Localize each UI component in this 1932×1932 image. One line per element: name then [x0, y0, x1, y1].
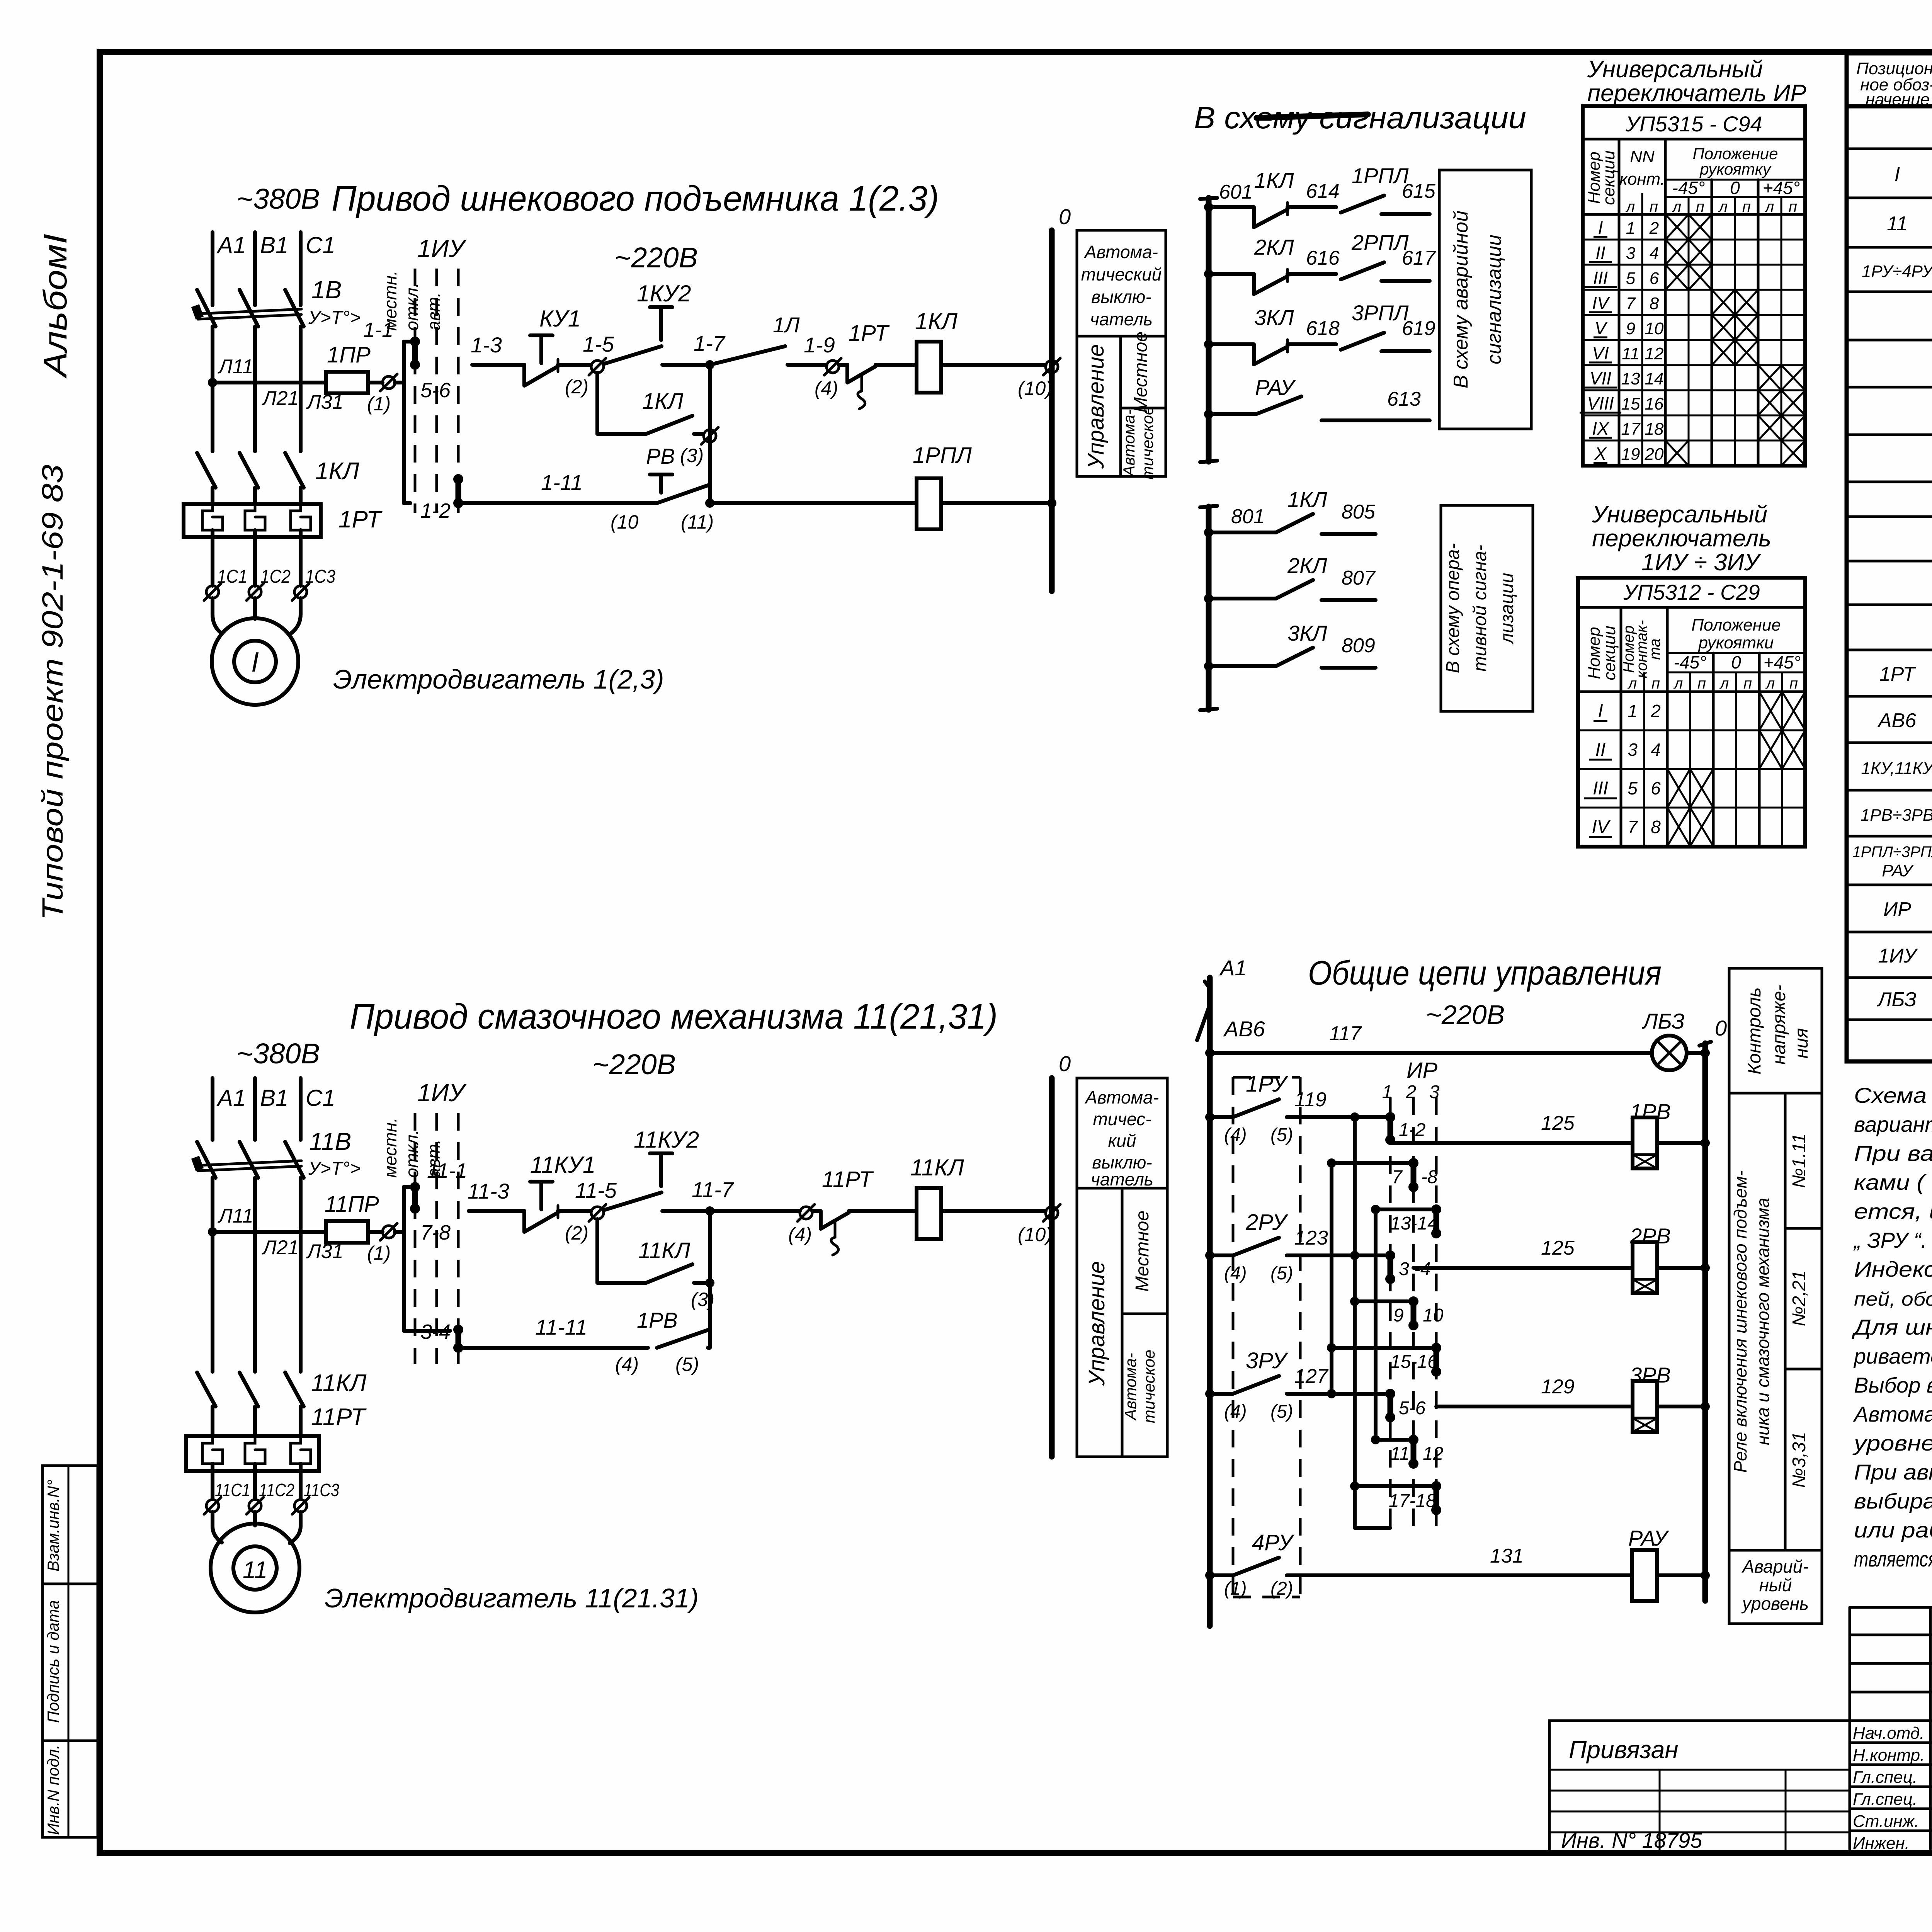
- svg-text:Л11: Л11: [218, 355, 253, 378]
- contact 1Л: [710, 313, 800, 365]
- svg-text:п: п: [1789, 675, 1798, 692]
- svg-text:Привязан: Привязан: [1569, 1736, 1679, 1764]
- svg-text:12: 12: [1423, 1444, 1443, 1464]
- phase wires below breaker (circuit 2): [213, 1178, 301, 1372]
- box Контроль напряжения: [1729, 968, 1822, 1093]
- svg-text:секции: секции: [1599, 150, 1618, 205]
- label Л31: [306, 391, 344, 413]
- stamp label Инв.N подл.: [44, 1745, 62, 1835]
- svg-text:Привод шнекового подъемника: Привод шнекового подъемника 1(2.3): [332, 179, 939, 218]
- svg-text:Управление: Управление: [1083, 344, 1109, 469]
- heading Универсальный переключатель ИР: [1587, 56, 1806, 107]
- svg-text:В схему опера-: В схему опера-: [1443, 543, 1463, 673]
- svg-text:Инв.N подл.: Инв.N подл.: [44, 1745, 62, 1835]
- svg-text:1: 1: [1626, 219, 1635, 238]
- label 11-1: [427, 1159, 467, 1182]
- svg-text:1В: 1В: [311, 276, 342, 304]
- svg-text:(11): (11): [681, 511, 714, 533]
- net ~380В (circuit 2): [236, 1037, 320, 1070]
- svg-text:IX: IX: [1592, 418, 1610, 439]
- contact row 2КЛ wire 807: [1204, 553, 1376, 603]
- svg-text:п: п: [1696, 198, 1704, 215]
- contact row 1КЛ/1РПЛ wires 601-614-615: [1204, 163, 1436, 227]
- svg-text:7-8: 7-8: [420, 1221, 451, 1244]
- table row 1РВ-3РВ РВ4-4: [1861, 801, 1932, 825]
- label откл. c2: [402, 1130, 422, 1178]
- svg-text:ЛБЗ: ЛБЗ: [1642, 1009, 1685, 1033]
- svg-text:ИР: ИР: [1406, 1058, 1437, 1083]
- svg-text:127: 127: [1294, 1365, 1329, 1388]
- svg-text:п: п: [1697, 675, 1706, 692]
- margin note Альбом I: [37, 234, 73, 379]
- box Реле включения шнекового подъемника и смазочного механизма: [1729, 1093, 1785, 1550]
- svg-text:10: 10: [1423, 1305, 1444, 1326]
- title Привод смазочного механизма 11(21,31): [350, 997, 998, 1036]
- svg-text:конт.: конт.: [1619, 170, 1665, 189]
- thermal relay heaters 1РТ: [184, 504, 321, 537]
- motor 11 (electric motor II): [211, 1524, 299, 1612]
- control mode box circuit 1: [1077, 230, 1166, 480]
- label 11КЛ (main contacts): [311, 1370, 367, 1396]
- svg-text:№2,21: №2,21: [1789, 1270, 1810, 1326]
- svg-text:12: 12: [1645, 344, 1664, 363]
- svg-text:0: 0: [1059, 1051, 1071, 1076]
- svg-text:1РУ: 1РУ: [1246, 1071, 1288, 1097]
- svg-text:л: л: [1626, 198, 1635, 215]
- node А1 label: [216, 232, 246, 258]
- bus 0 (common control right): [1699, 1016, 1727, 1601]
- svg-text:л: л: [1628, 675, 1637, 692]
- svg-text:3РПЛ: 3РПЛ: [1352, 301, 1409, 325]
- svg-text:РАУ: РАУ: [1628, 1526, 1669, 1550]
- terminal 1С3: [292, 566, 335, 600]
- svg-text:выбираемые избирателем режим: выбираемые избирателем режима ИР ( кажды…: [1854, 1489, 1932, 1513]
- svg-text:Автома-: Автома-: [1083, 242, 1158, 262]
- selector switch 1ИУ dashed poles: [415, 269, 458, 513]
- svg-text:уровней в приемной камере.: уровней в приемной камере. Местное с пом…: [1852, 1431, 1932, 1455]
- selector table УП5312-С29 rows: [1578, 692, 1805, 846]
- push button 11КУ1: [524, 1152, 595, 1232]
- svg-text:тическое: тическое: [1140, 1350, 1158, 1423]
- svg-text:Электродвигатель 11(21.31): Электродвигатель 11(21.31): [325, 1583, 699, 1613]
- push button КУ1: [524, 306, 581, 386]
- selector switch 1ИУ dashed poles c2: [415, 1113, 458, 1364]
- svg-text:Универсальный: Универсальный: [1587, 56, 1763, 83]
- wire 1-9: [787, 333, 835, 365]
- svg-text:КУ1: КУ1: [539, 306, 581, 332]
- svg-text:16: 16: [1645, 395, 1664, 413]
- table row ИР УП5315-С94: [1883, 898, 1932, 921]
- svg-text:(1): (1): [367, 1242, 391, 1264]
- svg-text:п: п: [1743, 675, 1752, 692]
- svg-text:(4): (4): [1224, 1125, 1247, 1145]
- svg-text:л: л: [1718, 198, 1728, 215]
- svg-text:Автома-: Автома-: [1120, 409, 1138, 477]
- relay coil 1РПЛ: [705, 443, 1056, 529]
- net ~220В (circuit 1): [614, 241, 698, 274]
- svg-text:2РВ: 2РВ: [1629, 1224, 1671, 1248]
- svg-text:Взам.инв.N°: Взам.инв.N°: [44, 1480, 62, 1571]
- svg-text:129: 129: [1541, 1376, 1575, 1398]
- svg-text:17-18: 17-18: [1389, 1491, 1436, 1511]
- svg-text:11С2: 11С2: [259, 1480, 294, 1500]
- svg-text:3КЛ: 3КЛ: [1287, 621, 1327, 645]
- svg-text:2РПЛ: 2РПЛ: [1351, 230, 1409, 255]
- svg-text:У>Т°>: У>Т°>: [308, 308, 361, 328]
- table row level relays 1РУ-4РУ: [1862, 257, 1932, 282]
- svg-text:5: 5: [1628, 778, 1638, 798]
- svg-text:X: X: [1594, 444, 1607, 464]
- svg-text:613: 613: [1387, 388, 1421, 410]
- wire to terminal (4) c2: [710, 1209, 800, 1213]
- svg-text:(5): (5): [1270, 1401, 1293, 1422]
- node С1 label c2: [306, 1085, 335, 1111]
- svg-text:+45°: +45°: [1763, 178, 1800, 198]
- svg-text:1: 1: [1628, 701, 1638, 721]
- svg-text:4: 4: [1651, 740, 1661, 760]
- ИР contact 11-12: [1390, 1435, 1443, 1469]
- svg-text:3РУ: 3РУ: [1246, 1348, 1288, 1373]
- svg-text:9: 9: [1626, 319, 1635, 338]
- label 11В: [309, 1128, 351, 1155]
- svg-text:л: л: [1765, 198, 1774, 215]
- table row АВ6 А63М: [1877, 702, 1932, 741]
- svg-text:РАУ: РАУ: [1882, 861, 1914, 880]
- svg-text:Типовой проект 902-1-69 83: Типовой проект 902-1-69 83: [36, 464, 69, 920]
- label Электродвигатель 11(21.31): [325, 1583, 699, 1613]
- terminal 11С3: [292, 1480, 339, 1514]
- svg-text:Управление: Управление: [1084, 1261, 1109, 1386]
- svg-text:авт.: авт.: [423, 1139, 444, 1178]
- svg-text:~380В: ~380В: [236, 1037, 320, 1070]
- node Л11: [208, 355, 253, 387]
- svg-text:Местное: Местное: [1132, 1211, 1153, 1292]
- level relay column dashed bracket: [1233, 1077, 1300, 1597]
- svg-text:л: л: [1673, 675, 1683, 692]
- svg-text:тическое: тическое: [1138, 406, 1156, 480]
- svg-text:617: 617: [1402, 247, 1436, 269]
- svg-text:618: 618: [1306, 317, 1340, 340]
- svg-text:Гл.спец.: Гл.спец.: [1853, 1768, 1917, 1787]
- svg-text:Н.контр.: Н.контр.: [1853, 1746, 1925, 1765]
- selector table УП5312-С29 frame: [1578, 578, 1805, 847]
- svg-text:(2): (2): [1270, 1578, 1293, 1599]
- time relay coil 1РВ wire 125: [1390, 1099, 1710, 1168]
- svg-text:2: 2: [1649, 219, 1659, 238]
- contactor coil 1КЛ: [876, 308, 1046, 393]
- svg-text:VIII: VIII: [1587, 393, 1614, 413]
- svg-text:(10: (10: [611, 511, 638, 533]
- label 1-1: [363, 318, 393, 342]
- svg-text:15: 15: [1621, 395, 1640, 413]
- wire Л11 to fuse: [213, 381, 326, 384]
- svg-text:-45°: -45°: [1674, 652, 1707, 672]
- svg-text:I: I: [1895, 163, 1900, 185]
- svg-text:805: 805: [1342, 501, 1376, 523]
- svg-text:I: I: [1598, 218, 1603, 238]
- svg-text:УП5315 - С94: УП5315 - С94: [1625, 112, 1762, 136]
- svg-text:1-7: 1-7: [694, 331, 726, 355]
- svg-text:Выбор вида управления осуще: Выбор вида управления осуществляется изб…: [1854, 1373, 1932, 1397]
- motor 11 connection wires: [213, 1512, 301, 1543]
- svg-text:11: 11: [243, 1557, 267, 1583]
- label 11РТ (heaters): [311, 1404, 367, 1430]
- svg-text:7: 7: [1628, 817, 1638, 837]
- svg-text:АВ6: АВ6: [1223, 1017, 1265, 1041]
- label 1В: [311, 276, 342, 304]
- svg-text:ИР: ИР: [1883, 898, 1911, 921]
- svg-text:8: 8: [1650, 294, 1659, 313]
- svg-text:Л21: Л21: [262, 387, 299, 410]
- svg-text:619: 619: [1402, 317, 1435, 340]
- svg-text:1-11: 1-11: [541, 470, 583, 495]
- svg-text:3: 3: [1628, 740, 1638, 760]
- contact row РАУ wire 613: [1204, 375, 1430, 420]
- svg-text:Привод смазочного механизма: Привод смазочного механизма 11(21,31): [350, 997, 998, 1036]
- svg-text:1ИУ: 1ИУ: [417, 1079, 467, 1107]
- terminal (2) circuit 2: [565, 1204, 606, 1244]
- ИР contact 17-18: [1389, 1481, 1441, 1515]
- svg-text:0: 0: [1059, 204, 1071, 229]
- label Л21 c2: [262, 1236, 299, 1259]
- svg-text:5: 5: [1626, 269, 1636, 288]
- svg-text:1ИУ ÷ 3ИУ: 1ИУ ÷ 3ИУ: [1641, 549, 1762, 576]
- svg-text:ками ( один рабочий, один рез: ками ( один рабочий, один резервный ) за…: [1854, 1170, 1932, 1194]
- svg-text:(3): (3): [680, 445, 704, 466]
- wire 1-3: [471, 333, 524, 365]
- box В схему аварийной сигнализации: [1439, 170, 1531, 429]
- svg-text:+45°: +45°: [1764, 652, 1801, 672]
- label 1ИУ c2: [417, 1079, 467, 1107]
- 1ИУ contact 5-6 (местн): [410, 337, 451, 402]
- svg-text:2РУ: 2РУ: [1245, 1210, 1288, 1235]
- svg-text:При варианте насосной станци: При варианте насосной станции с двумя шн…: [1854, 1141, 1932, 1165]
- svg-text:3: 3: [1626, 244, 1636, 263]
- notes text block: [1851, 1083, 1932, 1571]
- svg-text:п: п: [1789, 198, 1797, 215]
- svg-text:11В: 11В: [309, 1128, 351, 1155]
- svg-text:119: 119: [1294, 1088, 1327, 1111]
- svg-text:3: 3: [1429, 1082, 1440, 1102]
- svg-text:13-14: 13-14: [1390, 1213, 1438, 1234]
- label местн.: [380, 270, 400, 331]
- push button 11КУ2: [604, 1127, 710, 1211]
- bus 0 (circuit 1): [1052, 204, 1071, 591]
- svg-text:(10): (10): [1018, 1224, 1052, 1245]
- svg-text:11-3: 11-3: [468, 1179, 509, 1203]
- wires heaters to terminals (circuit 2): [213, 1471, 301, 1499]
- svg-text:кий: кий: [1108, 1131, 1136, 1151]
- component list table frame: [1847, 53, 1932, 1061]
- contactor main contacts 1КЛ: [197, 453, 304, 504]
- phase wires below breaker (circuit 1): [213, 327, 301, 451]
- svg-text:3КЛ: 3КЛ: [1254, 305, 1294, 330]
- node С1 label: [306, 232, 335, 258]
- heading В схему сигнализации: [1194, 100, 1526, 135]
- holding branch via 11КЛ aux contact: [597, 1219, 710, 1283]
- selector feed bracket 11-1/3-4: [395, 1187, 450, 1331]
- svg-text:напряже-: напряже-: [1769, 985, 1789, 1065]
- svg-text:переключатель ИР: переключатель ИР: [1587, 80, 1806, 107]
- fuse 1ПР: [326, 342, 371, 393]
- wire 1-11 and РВ contact row: [458, 444, 714, 533]
- cells №1.11 №2.21 №3.31: [1785, 1093, 1822, 1550]
- svg-text:1ПР: 1ПР: [327, 342, 371, 367]
- svg-text:11: 11: [1390, 1444, 1410, 1464]
- contact row 2КЛ/2РПЛ wires 616-617: [1204, 230, 1436, 294]
- svg-text:л: л: [1719, 675, 1729, 692]
- ИР contact 13-14: [1390, 1204, 1441, 1238]
- matrix stub wires: [1327, 1112, 1436, 1528]
- level relay contact 1РУ wire 119: [1205, 1071, 1390, 1145]
- svg-text:601: 601: [1219, 181, 1253, 203]
- wire fuse to terminal (1): [368, 381, 383, 384]
- svg-text:1-9: 1-9: [804, 333, 835, 357]
- svg-text:III: III: [1593, 778, 1608, 799]
- terminal (1) circuit 2: [367, 1223, 397, 1264]
- svg-text:чатель: чатель: [1091, 1169, 1153, 1189]
- svg-text:~220В: ~220В: [614, 241, 698, 274]
- svg-text:1РПЛ: 1РПЛ: [913, 443, 972, 468]
- svg-text:тичес-: тичес-: [1093, 1109, 1151, 1129]
- svg-text:откл.: откл.: [402, 283, 422, 331]
- svg-text:I: I: [251, 647, 259, 678]
- level relay contact 4РУ wire 131: [1205, 1530, 1632, 1599]
- label откл.: [402, 283, 422, 331]
- svg-text:10: 10: [1645, 319, 1664, 338]
- svg-text:6: 6: [1650, 269, 1659, 288]
- svg-text:переключатель: переключатель: [1592, 525, 1771, 552]
- terminal (4) circuit 1: [815, 358, 841, 399]
- svg-text:2: 2: [1406, 1082, 1417, 1102]
- svg-text:местн.: местн.: [380, 1117, 400, 1178]
- svg-text:(2): (2): [565, 1222, 588, 1244]
- svg-text:уровень: уровень: [1741, 1594, 1809, 1614]
- svg-text:11РТ: 11РТ: [311, 1404, 367, 1430]
- svg-text:Л11: Л11: [218, 1205, 253, 1227]
- stamp label Взам.инв.N: [44, 1480, 62, 1571]
- wire fuse to terminal (1) c2: [368, 1230, 383, 1234]
- svg-text:АльбомI: АльбомI: [37, 234, 73, 379]
- table row motor 11: [1887, 212, 1932, 235]
- node 11-7: [692, 1177, 734, 1216]
- svg-text:1КУ2: 1КУ2: [637, 281, 691, 306]
- svg-text:0: 0: [1730, 178, 1740, 198]
- mode selector ИР dashed poles: [1382, 1058, 1440, 1526]
- wire 117: [1205, 1022, 1652, 1058]
- label ~220В (common): [1426, 1000, 1505, 1030]
- svg-text:1КЛ: 1КЛ: [915, 308, 958, 334]
- table row motor 1: [1895, 162, 1932, 185]
- svg-text:Общие цепи управления: Общие цепи управления: [1308, 954, 1662, 992]
- svg-text:I: I: [1598, 701, 1603, 721]
- svg-text:лизации: лизации: [1497, 573, 1517, 645]
- svg-text:(5): (5): [675, 1354, 699, 1375]
- svg-text:У>Т°>: У>Т°>: [308, 1158, 361, 1179]
- svg-text:А1: А1: [1219, 956, 1247, 980]
- terminal 1С2: [247, 566, 291, 600]
- terminal (2) circuit 1: [565, 358, 606, 398]
- svg-text:1КУ,11КУ: 1КУ,11КУ: [1861, 759, 1932, 778]
- circuit breaker 1В: [191, 290, 304, 327]
- net ~220В (circuit 2): [592, 1048, 676, 1080]
- table row ЛБЗ АС12015: [1877, 981, 1932, 1020]
- svg-text:1С3: 1С3: [305, 566, 335, 587]
- node В1 label c2: [260, 1085, 288, 1111]
- svg-text:615: 615: [1402, 180, 1436, 202]
- fuse 11ПР: [325, 1192, 379, 1243]
- thermal contact 1РТ: [839, 321, 890, 409]
- svg-text:5-6: 5-6: [1399, 1398, 1426, 1418]
- svg-text:Индекс „ I “ в левой части: Индекс „ I “ в левой части обозначения а…: [1854, 1257, 1932, 1281]
- selector feed bracket 1-1/1-2: [395, 342, 410, 503]
- svg-text:1РТ: 1РТ: [338, 506, 383, 533]
- phase feeders А1 В1 С1 (circuit 2): [213, 1078, 301, 1140]
- contact row 1КЛ wire 801-805: [1204, 487, 1376, 537]
- circuit breaker 11В: [191, 1142, 304, 1178]
- svg-text:1КЛ: 1КЛ: [1254, 168, 1294, 192]
- svg-text:0: 0: [1715, 1016, 1727, 1040]
- attachment box Привязан: [1549, 1721, 1850, 1853]
- svg-text:131: 131: [1490, 1545, 1524, 1567]
- box В схему оперативной сигнализации: [1441, 505, 1533, 711]
- label Электродвигатель 1(2,3): [333, 664, 664, 694]
- svg-text:-8: -8: [1421, 1167, 1438, 1187]
- wire 11-5: [558, 1178, 617, 1211]
- svg-text:Электродвигатель 1(2,3): Электродвигатель 1(2,3): [333, 664, 664, 694]
- terminal (4) circuit 2: [788, 1204, 815, 1245]
- svg-text:7: 7: [1626, 294, 1636, 313]
- svg-text:2: 2: [1650, 701, 1661, 721]
- 1ИУ contact 3-4 (авт): [420, 474, 463, 522]
- ИР contact 7-8: [1392, 1158, 1438, 1192]
- wire 1-5: [558, 332, 614, 365]
- svg-text:ника и смазочного механизма: ника и смазочного механизма: [1753, 1198, 1773, 1445]
- svg-text:Автома-: Автома-: [1084, 1087, 1159, 1107]
- svg-text:А1: А1: [216, 232, 246, 258]
- svg-text:1: 1: [1382, 1082, 1393, 1102]
- ИР contact 3-4: [1385, 1250, 1431, 1284]
- svg-text:2КЛ: 2КЛ: [1254, 235, 1294, 259]
- svg-text:123: 123: [1294, 1227, 1328, 1249]
- breaker АВ6: [1197, 1005, 1265, 1041]
- wire node 1-7 down to РВ row: [708, 365, 712, 504]
- svg-text:III: III: [1593, 268, 1608, 288]
- contactor coil 11КЛ: [849, 1155, 1046, 1239]
- svg-text:4РУ: 4РУ: [1252, 1530, 1294, 1555]
- svg-text:Автоматическое управление ос: Автоматическое управление осуществляется…: [1853, 1402, 1932, 1426]
- svg-text:С1: С1: [306, 1085, 335, 1111]
- svg-text:~220В: ~220В: [1426, 1000, 1505, 1030]
- node А1 label c2: [216, 1085, 246, 1111]
- component table header: [1856, 59, 1932, 109]
- svg-text:авт.: авт.: [423, 292, 444, 331]
- svg-text:(4): (4): [615, 1354, 639, 1375]
- 1ИУ contact 7-8 (местн) c2: [410, 1182, 451, 1244]
- svg-text:11: 11: [1622, 344, 1639, 363]
- thermal relay heaters 11РТ: [186, 1436, 319, 1471]
- svg-text:или рабочим или резервным ): или рабочим или резервным ). Защита элек…: [1854, 1518, 1932, 1542]
- relay coil РАУ: [1628, 1526, 1710, 1601]
- svg-text:рукоятку: рукоятку: [1699, 160, 1772, 178]
- selector table УП5315-С94 frame: [1583, 106, 1805, 466]
- signal lamp ЛБЗ: [1642, 1009, 1705, 1070]
- svg-text:1ИУ: 1ИУ: [1878, 945, 1918, 967]
- table row 1РТ РТЛ-100804: [1879, 661, 1932, 685]
- svg-text:11КУ1: 11КУ1: [530, 1152, 595, 1178]
- svg-text:II: II: [1595, 243, 1605, 263]
- bus А1 (common control): [1205, 956, 1247, 1626]
